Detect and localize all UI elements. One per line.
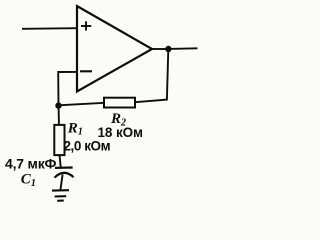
wire output to right <box>168 47 197 50</box>
ground <box>52 190 69 201</box>
plus input label <box>81 21 91 30</box>
wire R2 to output node <box>135 49 168 102</box>
wire inverting input <box>58 72 77 106</box>
wire node A to R1 <box>58 106 61 126</box>
node A junction <box>55 102 61 108</box>
resistor R2 <box>104 98 135 108</box>
svg-text:R1: R1 <box>67 120 83 137</box>
wire C1 to ground <box>60 175 62 191</box>
wire non-inverting input <box>22 27 77 30</box>
capacitor C1 top plate <box>55 166 73 169</box>
node B junction <box>165 46 171 52</box>
op-amp U1 <box>77 6 152 92</box>
wire node A to R2 <box>59 103 105 106</box>
wire R1 to C1 <box>60 155 61 167</box>
wire op-amp output <box>152 48 168 50</box>
svg-text:C1: C1 <box>21 172 36 190</box>
capacitor C1 curved plate <box>55 173 74 178</box>
svg-text:18 кОм: 18 кОм <box>98 125 144 140</box>
resistor R1 <box>54 125 64 155</box>
svg-text:2,0 кОм: 2,0 кОм <box>64 138 111 153</box>
svg-text:4,7 мкФ: 4,7 мкФ <box>5 156 57 172</box>
minus input label <box>80 70 92 72</box>
